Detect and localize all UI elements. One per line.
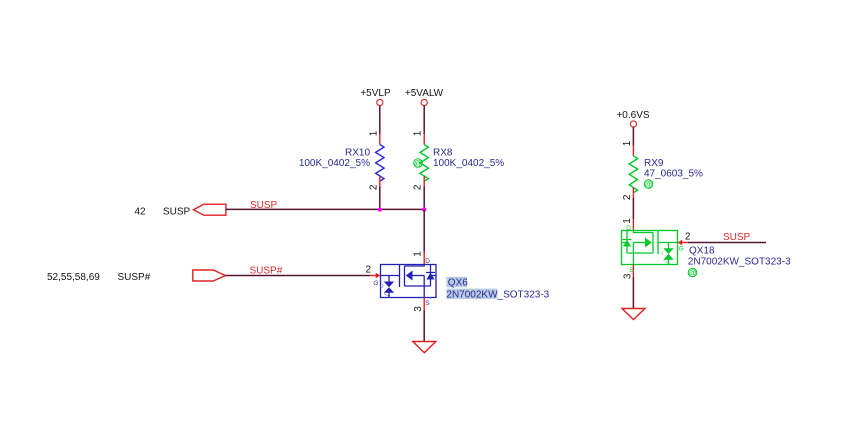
transistor QX6 gate zener drop [388,276,390,282]
connector SUSP# (off-page, pointing right) [193,270,226,281]
resistor RX8 variant marker @ [414,159,423,168]
transistor QX6 gate internal line [381,275,400,277]
wire RX8 pin2 to node SUSP [423,187,425,210]
wire QX18 gate to SUSP [688,242,766,244]
wire RX10 pin2 to node SUSP [379,187,381,210]
transistor QX18 gate zener (bowtie) [662,248,674,262]
svg-text:2N7002KW_SOT323-3: 2N7002KW_SOT323-3 [446,289,549,300]
svg-text:@: @ [688,269,696,278]
junction node at RX10/SUSP [378,207,382,211]
wire +5VLP to RX10 pin1 [379,106,381,134]
svg-text:1: 1 [413,130,424,136]
svg-text:RX10: RX10 [345,148,370,159]
transistor QX6 refdes highlight [446,277,467,288]
transistor QX6 channel line [404,266,406,286]
transistor QX6 gate pin stub with arrow [370,273,380,278]
connector SUSP (off-page, pointing left) [193,204,226,215]
svg-text:3: 3 [413,306,424,312]
transistor QX6 source pin stub [423,298,425,311]
svg-text:QX6: QX6 [448,278,468,289]
wire RX9 pin2 to QX18 drain [632,198,634,219]
transistor QX18 body diode [622,231,632,254]
resistor RX10 pin1 stub [379,134,381,145]
wire +0.6VS to RX9 pin1 [632,127,634,146]
svg-text:100K_0402_5%: 100K_0402_5% [433,158,504,169]
svg-text:1: 1 [413,251,424,257]
resistor RX9 variant marker @ [644,180,653,189]
svg-text:S: S [629,267,634,274]
transistor QX18 source pin stub [632,265,634,278]
wire SUSP# horizontal to QX6 gate [225,275,370,277]
svg-text:RX9: RX9 [644,158,664,169]
power symbol +0.6VS circle [630,121,636,127]
resistor RX9 pin2 stub [632,188,634,199]
transistor QX18 drain pin stub [632,219,634,231]
svg-text:+5VLP: +5VLP [360,88,391,99]
transistor QX6 body arrow [406,271,424,281]
transistor QX6 gate plate [399,265,401,288]
svg-text:1: 1 [368,130,379,136]
svg-text:2: 2 [368,184,379,190]
power symbol +5VALW circle [421,99,427,105]
svg-text:52,55,58,69: 52,55,58,69 [47,272,100,283]
transistor QX18 variant marker @ [688,268,697,277]
transistor QX18 body outline [622,231,678,265]
transistor QX18 channel line [652,233,654,254]
transistor QX6 source internal link [405,276,431,298]
ground symbol (under QX18) [622,309,645,320]
transistor QX6 drain internal link [405,265,425,267]
resistor RX10 body [376,145,384,182]
ground symbol (under QX6) [413,342,436,353]
transistor QX6 zener to source rail [388,293,390,298]
transistor QX6 body diode [426,265,436,287]
wire +5VALW to RX8 pin1 [423,106,425,134]
transistor QX6 drain pin stub [423,253,425,265]
transistor QX18 gate internal line [658,242,678,244]
svg-text:3: 3 [622,273,633,279]
wire node SUSP down to QX6 drain [423,210,425,253]
svg-text:+0.6VS: +0.6VS [616,110,649,121]
transistor QX6 partname highlight [446,289,497,300]
svg-text:@: @ [414,159,422,168]
svg-text:SUSP#: SUSP# [118,272,151,283]
svg-text:42: 42 [135,207,147,218]
svg-text:@: @ [645,180,653,189]
svg-text:2: 2 [622,194,633,200]
wire QX6 source to ground [423,310,425,342]
resistor RX10 pin2 stub [379,176,381,187]
wire QX18 source to ground [632,277,634,309]
svg-text:D: D [425,258,430,265]
resistor RX8 body [420,145,428,182]
transistor QX18 gate plate [657,231,659,255]
svg-text:2: 2 [413,184,424,190]
svg-text:SUSP: SUSP [163,207,191,218]
svg-text:1: 1 [622,140,633,146]
svg-text:+5VALW: +5VALW [405,88,444,99]
power symbol +5VLP circle [377,99,383,105]
transistor QX18 gate pin stub with arrow [678,240,689,245]
svg-text:1: 1 [622,218,633,224]
transistor QX18 gate zener drop [668,243,670,249]
transistor QX6 gate zener (bowtie) [382,282,394,296]
wire SUSP horizontal [226,208,424,210]
transistor QX18 drain internal link [633,231,653,233]
transistor QX6 body outline [381,265,437,298]
svg-text:RX8: RX8 [433,148,453,159]
svg-text:G: G [373,280,378,287]
svg-text:S: S [425,300,430,307]
svg-text:G: G [679,246,684,253]
resistor RX9 body [629,156,637,193]
resistor RX9 pin1 stub [632,146,634,157]
svg-text:2: 2 [685,232,691,243]
svg-text:SUSP: SUSP [723,232,751,243]
svg-text:QX18: QX18 [689,246,715,257]
junction node at RX8/SUSP [422,207,426,211]
svg-text:2N7002KW_SOT323-3: 2N7002KW_SOT323-3 [688,256,791,267]
svg-text:100K_0402_5%: 100K_0402_5% [299,158,370,169]
transistor QX18 zener to source rail [668,260,670,265]
transistor QX18 source internal link [627,243,653,265]
svg-text:47_0603_5%: 47_0603_5% [644,169,703,180]
resistor RX8 pin1 stub [423,134,425,145]
transistor QX18 body arrow [633,238,651,248]
svg-text:2: 2 [366,265,372,276]
resistor RX8 pin2 stub [423,176,425,187]
